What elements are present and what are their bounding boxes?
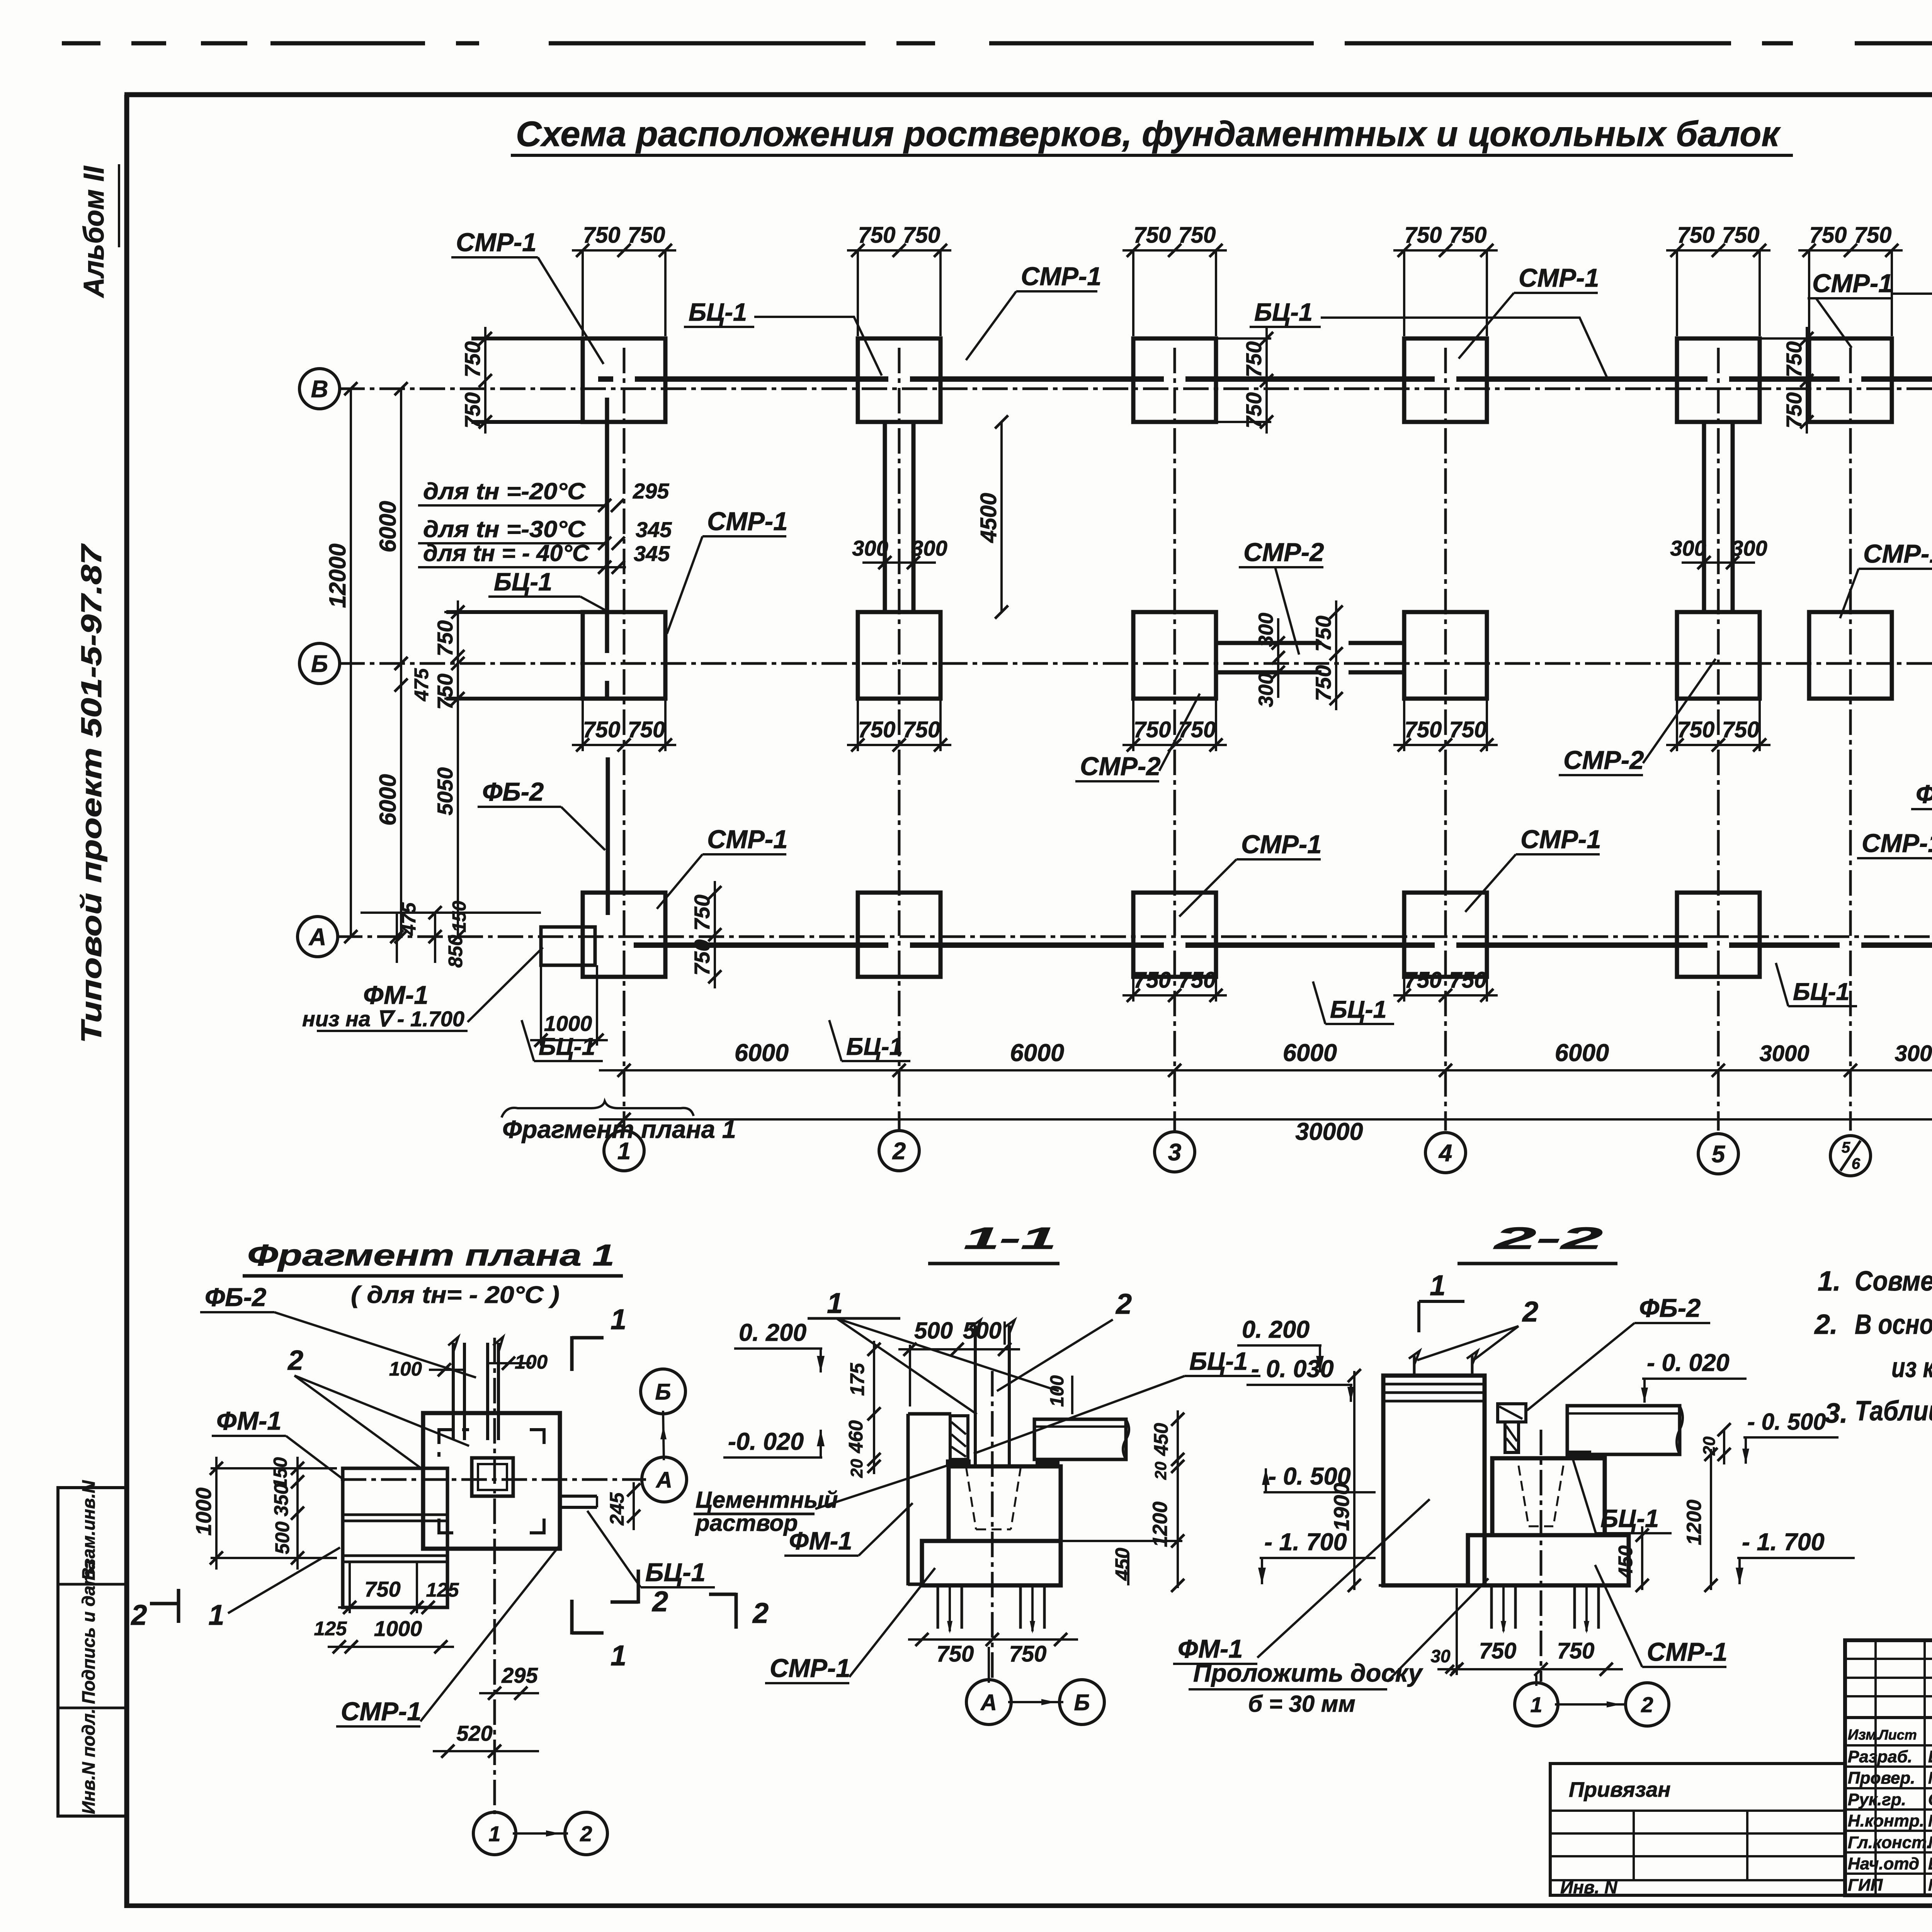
svg-text:295: 295 bbox=[501, 1663, 538, 1687]
svg-text:( для tн= - 20°С ): ( для tн= - 20°С ) bbox=[351, 1282, 560, 1308]
svg-text:Проложить доску: Проложить доску bbox=[1193, 1659, 1423, 1687]
section 1-1 ФБ-2 beam right bbox=[1034, 1419, 1129, 1466]
svg-text:20: 20 bbox=[847, 1459, 866, 1478]
svg-text:ФМ-1: ФМ-1 bbox=[789, 1527, 852, 1555]
svg-text:Б: Б bbox=[1074, 1690, 1090, 1715]
svg-text:Таблицу расчетных нагрузок: Таблицу расчетных нагрузок см. на л. 5. bbox=[1855, 1396, 1932, 1427]
svg-text:350: 350 bbox=[270, 1483, 292, 1516]
left margin stamp table bbox=[58, 1480, 127, 1816]
label ФБ-1 right bbox=[1911, 780, 1932, 839]
section 2-2 label ФМ-1 bbox=[1173, 1499, 1430, 1664]
svg-text:А: А bbox=[655, 1468, 672, 1493]
svg-text:750: 750 bbox=[1009, 1641, 1047, 1667]
svg-text:750: 750 bbox=[364, 1577, 400, 1601]
svg-text:БЦ-1: БЦ-1 bbox=[1254, 298, 1313, 326]
section 2-2 level 0.200 bbox=[1237, 1316, 1324, 1372]
dimension bays 6000x4 + 3000x2 bbox=[599, 1039, 1932, 1077]
svg-text:100: 100 bbox=[389, 1358, 422, 1380]
svg-text:2: 2 bbox=[287, 1345, 303, 1376]
svg-text:750: 750 bbox=[1179, 968, 1216, 993]
section 1-1 socket dashed bbox=[966, 1466, 1021, 1529]
svg-text:БЦ-1: БЦ-1 bbox=[539, 1033, 595, 1060]
dimension 750/750 right of cap В-5 bbox=[1760, 327, 1813, 434]
svg-text:295: 295 bbox=[633, 479, 669, 503]
section 2-2 dim 750/750 bottom bbox=[1437, 1588, 1623, 1676]
svg-text:ФМ-1: ФМ-1 bbox=[216, 1406, 282, 1435]
fragment dim 750 125 bottom bbox=[338, 1562, 459, 1614]
svg-text:750: 750 bbox=[1242, 341, 1266, 377]
svg-text:А: А bbox=[980, 1690, 997, 1715]
section 2-2 level -0.500 bbox=[1742, 1409, 1838, 1464]
label СМР-1 А-6 bbox=[1857, 829, 1932, 917]
svg-text:750: 750 bbox=[1810, 223, 1847, 248]
title block signature columns bbox=[1876, 1640, 1932, 1895]
label БЦ-1 под балкой А 2 bbox=[829, 1020, 910, 1061]
svg-text:БЦ-1: БЦ-1 bbox=[494, 568, 552, 596]
label СМР-2 Б-3 from below-left bbox=[1075, 694, 1200, 781]
svg-text:- 0. 020: - 0. 020 bbox=[1647, 1349, 1730, 1376]
svg-text:125: 125 bbox=[426, 1579, 459, 1601]
dimension 6000/6000 left bbox=[375, 382, 408, 943]
svg-text:Изм.: Изм. bbox=[1848, 1727, 1881, 1743]
section 2-2 label СМР-1 bbox=[1595, 1565, 1727, 1667]
section 2-2 label ФБ-2 bbox=[1527, 1294, 1710, 1410]
svg-text:низ на ∇ - 1.700: низ на ∇ - 1.700 bbox=[302, 1007, 464, 1031]
svg-text:750: 750 bbox=[1242, 392, 1266, 428]
section 2-2 column axis bbox=[1540, 1430, 1543, 1682]
section 2-2 pile cap bbox=[1468, 1458, 1629, 1585]
grid bubble 3 bbox=[1155, 1132, 1195, 1172]
fragment dim 1000 left bbox=[191, 1457, 337, 1570]
dimension 750/750 below cap Б-4 bbox=[1393, 699, 1498, 752]
pile cap СМР-1 Б-1 bbox=[446, 612, 665, 699]
section 1-1 level -1.700 bbox=[1258, 1529, 1376, 1584]
section 2-2 label БЦ-1 bbox=[1572, 1456, 1672, 1533]
svg-text:3: 3 bbox=[1168, 1139, 1181, 1166]
label БЦ-1 В span bbox=[684, 298, 882, 376]
margin text Альбом II bbox=[78, 164, 119, 298]
svg-text:Нач.отд: Нач.отд bbox=[1848, 1854, 1919, 1873]
svg-text:460: 460 bbox=[845, 1420, 867, 1453]
svg-text:2: 2 bbox=[1522, 1296, 1538, 1328]
section 1-1 dim 100 bbox=[1047, 1375, 1072, 1414]
svg-text:2: 2 bbox=[651, 1585, 668, 1617]
pile cap СМР-1 А-5 bbox=[1677, 893, 1760, 977]
label БЦ-1 Б-1 bbox=[488, 568, 606, 611]
neck СМР-2 Б-3/Б-4 bbox=[1216, 643, 1404, 672]
svg-text:СМР-1: СМР-1 bbox=[1812, 269, 1893, 298]
svg-text:СМР-1: СМР-1 bbox=[770, 1654, 850, 1683]
label СМР-1 Б-1 bbox=[667, 507, 787, 634]
dimension total 30000 bbox=[599, 1113, 1932, 1145]
svg-text:3.: 3. bbox=[1825, 1398, 1848, 1429]
svg-text:750: 750 bbox=[1782, 341, 1806, 377]
section 2-2 ФБ-2 section hatched bbox=[1498, 1404, 1526, 1452]
section 2-2 level -0.030 bbox=[1247, 1355, 1354, 1402]
svg-text:СМР-2: СМР-2 bbox=[1243, 538, 1324, 567]
dimension 750/750 below cap А-3 bbox=[1122, 968, 1227, 1002]
svg-text:1000: 1000 bbox=[191, 1488, 216, 1536]
section 2-2 dim 1900 bbox=[1329, 1369, 1361, 1592]
svg-text:Разраб.: Разраб. bbox=[1848, 1747, 1912, 1766]
sheet title bbox=[511, 114, 1793, 155]
note 2 line 1 bbox=[1814, 1309, 1932, 1340]
svg-text:475: 475 bbox=[410, 668, 432, 702]
svg-text:750: 750 bbox=[433, 620, 457, 656]
svg-text:1: 1 bbox=[488, 1821, 500, 1846]
svg-text:750: 750 bbox=[628, 223, 665, 248]
dimension 750/750 above cap В-5 bbox=[1666, 223, 1770, 336]
privyazan block bbox=[1550, 1764, 1845, 1897]
svg-text:Н.контр.: Н.контр. bbox=[1848, 1811, 1924, 1830]
svg-text:750: 750 bbox=[1677, 223, 1715, 248]
svg-text:245: 245 bbox=[606, 1492, 628, 1526]
svg-text:БЦ-1: БЦ-1 bbox=[645, 1558, 706, 1587]
pile cap СМР-1 В-5/6 bbox=[1809, 338, 1892, 422]
svg-text:Б: Б bbox=[655, 1379, 671, 1405]
dimension 750/750 below cap Б-1 bbox=[572, 699, 676, 752]
svg-text:Шелепко: Шелепко bbox=[1928, 1747, 1932, 1766]
svg-text:750: 750 bbox=[1782, 392, 1806, 428]
svg-text:500: 500 bbox=[914, 1318, 953, 1344]
grid bubble 5 bbox=[1698, 1134, 1738, 1174]
svg-text:для tн = - 40°С: для tн = - 40°С bbox=[423, 540, 590, 566]
pile cap СМР-2 Б-3 bbox=[1133, 612, 1216, 699]
svg-text:300: 300 bbox=[1255, 613, 1277, 647]
section 1-1 dim 500/500 bbox=[898, 1318, 1020, 1406]
label БЦ-1 под балкой А 4 bbox=[1776, 963, 1857, 1006]
label БЦ-1 В span 2 bbox=[1250, 298, 1607, 377]
pile cap СМР-2 Б-4 bbox=[1404, 612, 1487, 699]
svg-text:750: 750 bbox=[1722, 223, 1760, 248]
pile cap СМР-2 В-5 bbox=[1677, 338, 1760, 422]
svg-text:300: 300 bbox=[1731, 536, 1767, 560]
dimension 4500 pier В-2 bbox=[1000, 422, 1003, 612]
pile cap СМР-1 А-3 bbox=[1133, 893, 1216, 977]
section 1-1 pos 1 callout bbox=[808, 1287, 1059, 1414]
dimension 750/750 above cap В-1 bbox=[572, 223, 676, 336]
section 2-2 pos 2 callout bbox=[1417, 1296, 1538, 1360]
svg-text:100: 100 bbox=[515, 1351, 548, 1373]
svg-text:1200: 1200 bbox=[1683, 1500, 1706, 1545]
svg-text:750: 750 bbox=[460, 392, 485, 428]
section 2-2 level -0.020 bbox=[1641, 1349, 1747, 1403]
svg-text:125: 125 bbox=[314, 1617, 347, 1639]
svg-text:300: 300 bbox=[1670, 536, 1706, 560]
section 2-2 bubbles 1 2 bbox=[1515, 1675, 1669, 1726]
svg-text:345: 345 bbox=[636, 517, 672, 542]
section 1-1 right dim chain bbox=[1061, 1410, 1184, 1592]
label СМР-2 Б-5 from below bbox=[1559, 659, 1716, 775]
fragment label СМР-1 bbox=[336, 1546, 560, 1726]
dimension 300/300 pier В-5 bbox=[1670, 536, 1767, 569]
section 1-1 label СМР-1 bbox=[765, 1568, 935, 1683]
svg-text:Штука: Штука bbox=[1928, 1854, 1932, 1873]
fragment dims 150 350 500 bbox=[270, 1457, 304, 1570]
dimension 750/750 above cap В-4 bbox=[1393, 223, 1498, 336]
fragment bubbles Б А bbox=[641, 1369, 687, 1502]
axis column 5 bbox=[1717, 348, 1720, 1131]
svg-text:БЦ-1: БЦ-1 bbox=[1189, 1347, 1248, 1375]
fragment section mark 1 top bbox=[572, 1303, 626, 1371]
svg-text:- 0. 030: - 0. 030 bbox=[1251, 1355, 1334, 1383]
title block header row line bbox=[1845, 1716, 1932, 1719]
svg-text:750: 750 bbox=[690, 895, 714, 930]
svg-text:для tн =-20°С: для tн =-20°С bbox=[423, 478, 586, 504]
svg-text:Схема расположения ростверков: Схема расположения ростверков, фундамент… bbox=[516, 114, 1781, 154]
svg-text:Машков: Машков bbox=[1928, 1876, 1932, 1895]
dimension 750/750 below cap Б-3 bbox=[1122, 699, 1227, 752]
svg-text:750: 750 bbox=[858, 717, 896, 742]
axis column 2 bbox=[898, 348, 901, 1131]
svg-text:ФМ-1: ФМ-1 bbox=[363, 981, 429, 1010]
svg-text:750: 750 bbox=[1449, 717, 1487, 742]
axis column 1 bbox=[623, 348, 626, 1131]
svg-text:30000: 30000 bbox=[1295, 1118, 1363, 1145]
svg-text:6000: 6000 bbox=[375, 501, 401, 552]
foundation ФМ-1 А-1 bbox=[541, 927, 595, 965]
svg-text:300: 300 bbox=[852, 536, 888, 560]
svg-text:450: 450 bbox=[1614, 1545, 1636, 1578]
section 1-1 level -0.020 bbox=[723, 1428, 825, 1458]
svg-text:5050: 5050 bbox=[433, 767, 457, 816]
svg-text:4: 4 bbox=[1438, 1140, 1452, 1167]
dimension 1000 below ФМ-1 bbox=[530, 965, 608, 1047]
label СМР-1 В-1 bbox=[451, 228, 604, 364]
svg-text:500: 500 bbox=[963, 1318, 1002, 1344]
plinth beam БЦ-1 row А bbox=[634, 942, 1932, 948]
svg-text:для tн =-30°С: для tн =-30°С bbox=[423, 516, 586, 542]
svg-text:ФБ-2: ФБ-2 bbox=[482, 777, 544, 806]
note для tн=-20°С left bbox=[418, 478, 669, 512]
svg-text:6: 6 bbox=[1852, 1155, 1861, 1172]
svg-text:Инв. N: Инв. N bbox=[1560, 1877, 1617, 1897]
fragment label ФБ-2 bbox=[200, 1283, 476, 1378]
dimension 750/750 above cap В-2 bbox=[847, 223, 951, 336]
axis row Б bbox=[339, 662, 1932, 665]
axis column 4 bbox=[1444, 348, 1447, 1131]
pile cap СМР-1 В-1 bbox=[471, 338, 665, 422]
fragment БЦ-1 beam stub right bbox=[560, 1496, 597, 1507]
svg-text:750: 750 bbox=[1722, 717, 1760, 742]
fragment axis А horizontal bbox=[341, 1478, 646, 1481]
svg-text:БЦ-1: БЦ-1 bbox=[1793, 978, 1850, 1005]
svg-text:500: 500 bbox=[271, 1521, 293, 1554]
label СМР-2 Б-3 bbox=[1239, 538, 1324, 655]
svg-text:1.: 1. bbox=[1818, 1266, 1841, 1297]
section 2-2 dim 450 1200 bbox=[1614, 1448, 1718, 1592]
svg-text:750: 750 bbox=[1134, 717, 1171, 742]
section 2-2 heading bbox=[1458, 1221, 1617, 1264]
section 1-1 БЦ-1 beam section hatched bbox=[946, 1416, 971, 1466]
label ФМ-1 с отметкой bbox=[302, 947, 543, 1031]
section 2-2 label Проложить доску bbox=[1189, 1578, 1488, 1717]
title block signature rows bbox=[1845, 1745, 1932, 1874]
svg-text:Провер.: Провер. bbox=[1848, 1769, 1915, 1787]
fragment axis 1 vertical bbox=[493, 1338, 496, 1814]
dimension 300/300 pier В-2 bbox=[852, 536, 947, 569]
fragment ФМ-1 block bbox=[343, 1468, 447, 1607]
svg-text:Магомедов: Магомедов bbox=[1928, 1833, 1932, 1852]
svg-text:СМР-1: СМР-1 bbox=[707, 507, 787, 536]
title block signatures bbox=[1848, 1743, 1932, 1895]
svg-text:Манзюк: Манзюк bbox=[1928, 1769, 1932, 1787]
pile cap СМР-1 В-3 bbox=[1133, 338, 1216, 422]
fragment column pier lines bbox=[448, 1337, 503, 1440]
section 2-2 dim 30 bbox=[1430, 1646, 1460, 1673]
svg-text:750: 750 bbox=[1854, 223, 1892, 248]
axis row А bbox=[337, 935, 1932, 938]
pile cap СМР-1 Б-2 bbox=[858, 612, 940, 699]
svg-text:20: 20 bbox=[1700, 1436, 1719, 1456]
section 2-2 dim 20 right bbox=[1700, 1423, 1731, 1464]
label БЦ-1 под балкой А 3 bbox=[1313, 981, 1394, 1024]
dimension 750/750 below cap Б-5 bbox=[1666, 699, 1770, 752]
note для tн=-40°С left bbox=[418, 540, 670, 574]
svg-text:Рук.гр.: Рук.гр. bbox=[1848, 1790, 1906, 1809]
dimension 750/750 below cap Б-2 bbox=[847, 699, 951, 752]
grid bubble Б bbox=[299, 643, 340, 684]
svg-text:750: 750 bbox=[1557, 1638, 1595, 1663]
svg-text:300: 300 bbox=[1255, 673, 1277, 707]
svg-text:из крупнозернистого песка т: из крупнозернистого песка толщиной не ме… bbox=[1891, 1352, 1932, 1383]
svg-text:750: 750 bbox=[433, 673, 457, 709]
grid bubble 4 bbox=[1425, 1133, 1466, 1173]
svg-text:750: 750 bbox=[460, 341, 485, 377]
svg-text:Подпись и дата: Подпись и дата bbox=[78, 1560, 99, 1704]
svg-text:0. 200: 0. 200 bbox=[739, 1319, 806, 1346]
section 1-1 pile cap bbox=[922, 1466, 1061, 1585]
fragment anchor bracket BL bbox=[439, 1519, 453, 1533]
section 1-1 pos 2 callout bbox=[997, 1288, 1132, 1391]
svg-text:СМР-1: СМР-1 bbox=[707, 825, 787, 854]
svg-text:2: 2 bbox=[1115, 1288, 1132, 1320]
svg-text:12000: 12000 bbox=[325, 544, 350, 608]
svg-text:БЦ-1: БЦ-1 bbox=[1600, 1504, 1659, 1532]
wall pier В-2 to Б-2 bbox=[885, 422, 913, 612]
svg-text:750: 750 bbox=[1311, 665, 1335, 701]
svg-text:Типовой проект 501-5-97.87: Типовой проект 501-5-97.87 bbox=[75, 543, 107, 1043]
svg-text:300: 300 bbox=[911, 536, 947, 560]
fragment dim 520 bbox=[433, 1721, 539, 1758]
fragment cap СМР-1 outline bbox=[423, 1413, 560, 1549]
svg-text:6000: 6000 bbox=[735, 1039, 789, 1066]
svg-text:175: 175 bbox=[846, 1363, 868, 1396]
svg-text:2: 2 bbox=[752, 1597, 769, 1629]
svg-text:2: 2 bbox=[580, 1821, 592, 1846]
label СМР-1 В-3 bbox=[966, 262, 1101, 360]
section 2-2 pos 1 callout bbox=[1419, 1269, 1464, 1332]
dimension 750/750 left of cap Б-1 bbox=[395, 600, 583, 710]
small dims near А-1 bbox=[361, 901, 541, 968]
svg-text:1: 1 bbox=[1430, 1269, 1446, 1301]
svg-text:5: 5 bbox=[1842, 1139, 1850, 1156]
svg-text:В: В bbox=[311, 376, 328, 403]
section 2-2 anchor bolts bbox=[1409, 1351, 1478, 1376]
svg-text:750: 750 bbox=[1405, 717, 1442, 742]
label СМР-1 В-4 bbox=[1459, 264, 1599, 359]
svg-text:6000: 6000 bbox=[375, 774, 401, 825]
svg-text:1: 1 bbox=[611, 1639, 626, 1672]
fragment dim 100 left bbox=[389, 1358, 466, 1380]
svg-text:БЦ-1: БЦ-1 bbox=[1330, 996, 1387, 1023]
dimension 750/750 above cap В-5/6 bbox=[1798, 223, 1903, 336]
svg-text:БЦ-1: БЦ-1 bbox=[846, 1033, 903, 1060]
svg-text:6000: 6000 bbox=[1283, 1039, 1337, 1066]
label СМР-1 А-1 bbox=[657, 825, 787, 909]
section 2-2 БЦ-1 beam right bbox=[1567, 1406, 1683, 1456]
svg-text:2-2: 2-2 bbox=[1493, 1221, 1603, 1255]
svg-text:Совместно с данным листом с: Совместно с данным листом см. л. 10. bbox=[1855, 1266, 1932, 1297]
pile cap СМР-1 В-4 bbox=[1404, 338, 1487, 422]
section 1-1 bubbles А Б bbox=[966, 1647, 1104, 1725]
svg-text:Манзюк: Манзюк bbox=[1928, 1811, 1932, 1830]
dimension 750/750 left of cap Б-4 bbox=[1311, 600, 1343, 710]
svg-text:750: 750 bbox=[1311, 616, 1335, 651]
svg-text:СМР-1: СМР-1 bbox=[1647, 1638, 1727, 1667]
label СМР-1 А-4 bbox=[1465, 825, 1601, 912]
title block outline bbox=[1845, 1640, 1932, 1895]
svg-text:6000: 6000 bbox=[1010, 1039, 1064, 1066]
note для tн=-30°С left bbox=[418, 516, 672, 550]
dimension 750/750 right of cap В-3 bbox=[1216, 327, 1273, 434]
label СМР-1 Б-5/6 bbox=[1840, 539, 1932, 618]
svg-text:СМР-1: СМР-1 bbox=[1863, 539, 1932, 568]
svg-text:СМР-1: СМР-1 bbox=[1021, 262, 1101, 291]
svg-text:1: 1 bbox=[611, 1303, 626, 1335]
dimension 750/750 left of cap В-1 bbox=[460, 327, 583, 434]
section 1-1 label ФМ-1 bbox=[784, 1503, 913, 1556]
fragment callout brace bbox=[502, 1101, 736, 1143]
section 1-1 label БЦ-1 bbox=[974, 1347, 1260, 1454]
svg-text:1: 1 bbox=[1530, 1692, 1542, 1717]
scan edge dashes top bbox=[62, 41, 1932, 46]
section 2-2 level -1.700 bbox=[1736, 1529, 1855, 1584]
fragment anchor bracket TL bbox=[439, 1430, 469, 1457]
svg-text:750: 750 bbox=[690, 939, 714, 975]
svg-text:СМР-2: СМР-2 bbox=[1563, 746, 1644, 775]
svg-text:750: 750 bbox=[1179, 223, 1216, 248]
svg-text:345: 345 bbox=[634, 541, 670, 566]
grid bubble 2 bbox=[879, 1131, 919, 1171]
svg-text:3000: 3000 bbox=[1895, 1041, 1932, 1066]
section 2-2 piles bbox=[1492, 1585, 1599, 1634]
svg-text:В основании ростверков устра: В основании ростверков устраивается подг… bbox=[1855, 1309, 1932, 1340]
dimension 750/750 right of cap А-1 bbox=[690, 881, 721, 988]
svg-text:ФБ-2: ФБ-2 bbox=[1639, 1294, 1701, 1323]
grid bubble В bbox=[299, 369, 340, 409]
grid bubble 5/6 bbox=[1830, 1136, 1871, 1176]
svg-text:1: 1 bbox=[208, 1599, 224, 1631]
svg-text:Альбом II: Альбом II bbox=[78, 166, 110, 298]
svg-text:СМР-1: СМР-1 bbox=[456, 228, 536, 257]
svg-text:750: 750 bbox=[1479, 1638, 1517, 1663]
svg-text:750: 750 bbox=[937, 1641, 974, 1667]
svg-text:А: А bbox=[308, 924, 327, 951]
svg-text:1000: 1000 bbox=[374, 1616, 422, 1641]
svg-text:750: 750 bbox=[583, 717, 621, 742]
svg-text:1: 1 bbox=[827, 1287, 843, 1319]
svg-text:0. 200: 0. 200 bbox=[1242, 1316, 1310, 1343]
svg-text:750: 750 bbox=[1405, 968, 1442, 993]
svg-text:2: 2 bbox=[130, 1599, 147, 1631]
pile cap СМР-1 А-2 bbox=[858, 893, 940, 977]
svg-text:СМР-2: СМР-2 bbox=[1080, 752, 1160, 781]
fragment dim 295 bbox=[479, 1663, 539, 1700]
fragment dim 100 right bbox=[486, 1351, 548, 1373]
svg-text:6000: 6000 bbox=[1555, 1039, 1609, 1066]
section 1-1 ФМ-1 monolith bbox=[908, 1414, 951, 1585]
